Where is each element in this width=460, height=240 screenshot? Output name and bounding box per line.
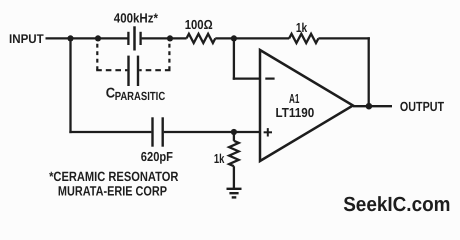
wire inverting input vertical (233, 38, 235, 79)
op-amp A1 LT1190 (260, 50, 353, 161)
wire R100 to feedback node (215, 37, 289, 39)
ground (227, 189, 242, 198)
junction output node (366, 103, 373, 110)
value label 100 ohm (185, 17, 213, 32)
junction resonator left (95, 35, 101, 41)
capacitor C parasitic plates (129, 56, 139, 86)
svg-text:OUTPUT: OUTPUT (400, 99, 444, 114)
node INPUT (9, 32, 44, 46)
capacitor C parasitic dashed wire right (139, 69, 170, 71)
wire input to resonator (46, 37, 128, 39)
svg-text:SeekIC.com: SeekIC.com (343, 193, 450, 216)
svg-text:INPUT: INPUT (9, 32, 44, 46)
svg-text:1k: 1k (296, 20, 308, 35)
svg-text:MURATA-ERIE CORP: MURATA-ERIE CORP (58, 184, 167, 199)
value label 400kHz* (114, 10, 159, 25)
label C PARASITIC (106, 86, 166, 103)
capacitor C parasitic dashed outline right (168, 44, 170, 71)
wire resistor to ground (233, 166, 235, 188)
wire feedback resistor to corner (318, 37, 369, 39)
op-amp plus input marking (264, 128, 272, 136)
junction input branch (67, 35, 73, 41)
wire to grounding resistor (233, 132, 235, 141)
capacitor C 620pF (153, 117, 163, 146)
junction resonator right (167, 35, 173, 41)
wire inverting input horizontal (233, 77, 261, 79)
svg-text:620pF: 620pF (141, 149, 173, 164)
capacitor C parasitic dashed outline left (96, 44, 98, 71)
note ceramic resonator (49, 169, 179, 199)
wire resonator to R 100 (142, 37, 187, 39)
svg-text:A1: A1 (289, 91, 300, 106)
node OUTPUT (400, 99, 444, 114)
watermark SeekIC.com (343, 193, 450, 216)
wire bottom branch to C620 (69, 131, 151, 133)
wire input branch vertical left (69, 38, 71, 133)
label A1 (289, 91, 300, 106)
resistor R ground 1k (229, 141, 239, 166)
svg-text:*CERAMIC RESONATOR: *CERAMIC RESONATOR (49, 169, 179, 184)
label LT1190 (276, 105, 315, 120)
resistor R feedback 1k (289, 34, 318, 43)
junction noninverting node (231, 129, 237, 135)
svg-text:PARASITIC: PARASITIC (115, 89, 166, 103)
svg-text:1k: 1k (214, 151, 225, 166)
value label 1k feedback (296, 20, 308, 35)
svg-text:C: C (106, 86, 115, 102)
wire feedback vertical down to output node (368, 37, 370, 106)
value label 1k ground (214, 151, 225, 166)
svg-text:400kHz*: 400kHz* (114, 10, 159, 25)
junction feedback node (231, 35, 237, 41)
capacitor C parasitic dashed wire left (96, 69, 127, 71)
svg-text:100Ω: 100Ω (185, 17, 213, 32)
ceramic resonator Y1 400kHz (128, 26, 140, 50)
svg-text:LT1190: LT1190 (276, 105, 315, 120)
resistor 100 ohm (187, 34, 216, 43)
value label 620pF (141, 149, 173, 164)
wire output (353, 105, 392, 107)
op-amp minus input marking (265, 77, 274, 79)
wire C620 to noninverting input (164, 131, 261, 133)
